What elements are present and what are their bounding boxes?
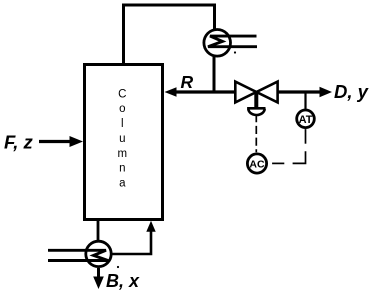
transmitter AT circle <box>297 110 315 128</box>
svg-text:n: n <box>119 163 125 175</box>
svg-text:F, z: F, z <box>4 132 34 153</box>
wire overhead vapor line (column top to condenser) <box>124 5 215 64</box>
svg-text:a: a <box>119 178 126 190</box>
wire AT tap line <box>304 93 306 110</box>
svg-text:m: m <box>118 148 128 160</box>
svg-text:B, x: B, x <box>106 271 140 291</box>
wire feed line F with arrow into column <box>39 140 70 143</box>
svg-text:C: C <box>118 88 126 100</box>
column T-1 (Columna) <box>85 65 163 220</box>
condenser coil (sigma zigzag) and coolant lines <box>208 36 257 47</box>
control valve V-1 (two triangles) <box>235 82 256 103</box>
reboiler E-2 circle <box>86 241 111 266</box>
condenser E-1 circle <box>204 30 231 57</box>
svg-text:D, y: D, y <box>334 81 370 102</box>
svg-text:AC: AC <box>249 158 265 170</box>
svg-text:AT: AT <box>299 114 313 126</box>
stray dot near condenser <box>234 51 236 53</box>
wire bottoms line B with down arrow <box>97 268 100 277</box>
valve diaphragm actuator bowl <box>247 107 265 110</box>
wire dashed signal valve to AC <box>255 114 257 152</box>
valve stem <box>254 92 258 108</box>
controller AC circle <box>247 154 266 173</box>
stray dot near reboiler <box>117 266 119 268</box>
label Columna (vertical text inside column) <box>118 88 128 189</box>
svg-text:o: o <box>119 103 125 115</box>
reboiler coil (mirrored sigma) and heating lines <box>48 250 108 260</box>
wire dashed signal AT to AC <box>305 129 307 144</box>
wire distillate line D with arrow <box>278 90 320 93</box>
wire reboiler vapor return to column with up arrow <box>113 231 152 254</box>
wire reflux line R with arrow into column <box>176 90 235 93</box>
svg-text:R: R <box>181 72 194 92</box>
wire condenser outlet down to reflux tee <box>213 57 216 93</box>
svg-text:u: u <box>119 133 125 145</box>
svg-text:l: l <box>121 118 124 130</box>
wire column bottom to reboiler <box>97 220 100 241</box>
